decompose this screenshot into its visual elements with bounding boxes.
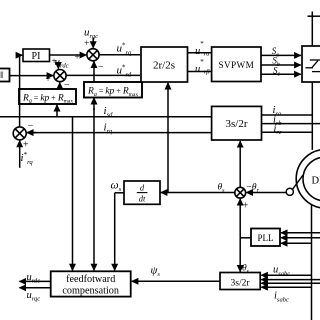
svg-text:−: −	[98, 62, 104, 73]
svg-text:2r/2s: 2r/2s	[153, 59, 175, 71]
svg-text:3s/2r: 3s/2r	[226, 118, 248, 130]
svg-text:+: +	[84, 39, 89, 49]
svg-text:+: +	[51, 57, 56, 67]
svg-text:+: +	[23, 140, 29, 151]
svg-text:SVPWM: SVPWM	[218, 60, 254, 70]
svg-text:+: +	[243, 201, 249, 212]
svg-text:PLL: PLL	[257, 233, 273, 243]
svg-text:PI: PI	[32, 51, 41, 62]
svg-text:+: +	[45, 75, 50, 85]
svg-text:−: −	[28, 121, 34, 132]
svg-text:compensation: compensation	[62, 286, 119, 297]
svg-text:feedfotward: feedfotward	[66, 274, 115, 285]
svg-text:DF: DF	[312, 176, 320, 187]
svg-text:dt: dt	[139, 193, 146, 203]
svg-text:+: +	[74, 53, 79, 63]
svg-text:3s/2r: 3s/2r	[231, 278, 251, 288]
